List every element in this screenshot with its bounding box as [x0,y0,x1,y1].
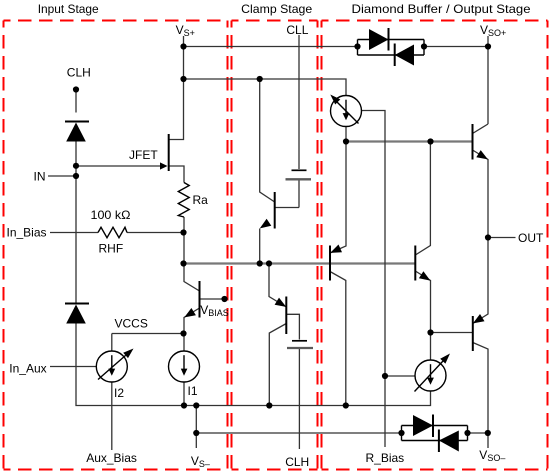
svg-text:R_Bias: R_Bias [366,451,405,465]
svg-text:RHF: RHF [99,242,124,256]
svg-text:IN: IN [34,170,46,184]
svg-text:In_Bias: In_Bias [7,226,47,240]
svg-text:CLH: CLH [67,66,91,80]
svg-text:I2: I2 [114,386,124,400]
svg-text:OUT: OUT [518,231,544,245]
svg-text:VS+: VS+ [176,23,195,38]
svg-text:Ra: Ra [193,193,209,207]
svg-text:VBIAS: VBIAS [200,303,229,318]
svg-text:VSO–: VSO– [479,448,505,463]
svg-text:Diamond Buffer / Output Stage: Diamond Buffer / Output Stage [352,2,531,16]
svg-text:Input Stage: Input Stage [38,2,99,16]
svg-text:Aux_Bias: Aux_Bias [86,451,137,465]
svg-text:VS–: VS– [191,454,210,469]
svg-text:CLH: CLH [285,455,309,469]
svg-text:100 kΩ: 100 kΩ [91,208,131,222]
svg-text:In_Aux: In_Aux [9,361,46,375]
svg-text:Clamp Stage: Clamp Stage [241,2,312,16]
svg-text:I1: I1 [188,384,198,398]
svg-text:JFET: JFET [129,148,158,162]
svg-text:VSO+: VSO+ [480,23,506,38]
svg-text:CLL: CLL [286,23,308,37]
svg-text:VCCS: VCCS [115,317,148,331]
